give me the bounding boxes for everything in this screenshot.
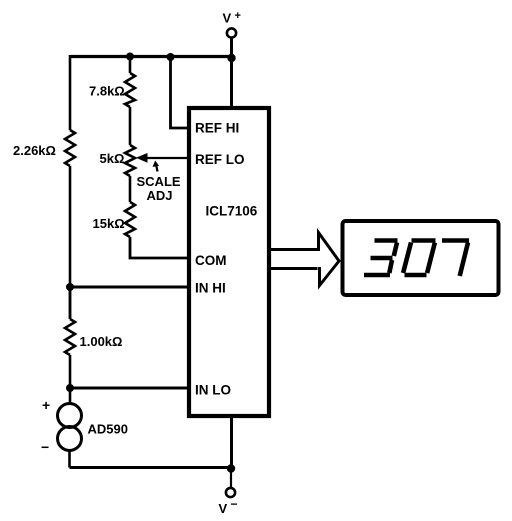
junction dot V- (227, 464, 235, 472)
svg-text:5kΩ: 5kΩ (100, 151, 125, 166)
junction dot IN LO (66, 384, 74, 392)
junction dot REF HI branch (167, 53, 175, 61)
display digit 0 (403, 241, 435, 276)
svg-text:REF LO: REF LO (195, 152, 245, 167)
display digit 7 (442, 241, 469, 277)
wire V+ drop into IC top (230, 58, 233, 110)
svg-text:+: + (42, 397, 50, 413)
wire left rail mid (69, 166, 72, 319)
wire chain top stub (129, 57, 132, 74)
potentiometer 5k element (125, 145, 135, 176)
node V+ terminal label (223, 10, 241, 26)
svg-text:2.26kΩ: 2.26kΩ (13, 143, 56, 158)
svg-text:15kΩ: 15kΩ (93, 216, 125, 231)
op-amp U1 ICL7106 box (189, 108, 269, 416)
wire V- from IC bottom (230, 416, 233, 470)
svg-text:IN LO: IN LO (195, 383, 231, 398)
node V+ terminal circle (227, 28, 236, 37)
wire IN LO node to AD590 (69, 388, 72, 404)
label SCALE ADJ (137, 174, 181, 203)
svg-text:COM: COM (195, 253, 227, 268)
wire IN LO (70, 387, 189, 390)
current source AD590 upper circle (58, 404, 82, 428)
junction dot IN HI (66, 283, 74, 291)
svg-text:ICL7106: ICL7106 (206, 204, 258, 219)
wire wiper to REF LO (147, 157, 189, 159)
svg-text:V: V (223, 11, 232, 26)
svg-text:V: V (219, 501, 228, 516)
svg-text:−: − (41, 439, 49, 455)
block arrow to display (271, 233, 339, 286)
svg-text:−: − (231, 497, 238, 511)
wire chain bottom to COM (130, 237, 189, 258)
resistor 2.26k (65, 130, 75, 166)
wire chain between pot and 15k (129, 176, 132, 202)
current source AD590 lower circle (58, 427, 82, 451)
svg-text:SCALE: SCALE (137, 174, 181, 189)
resistor 1.00k (65, 319, 75, 355)
wire AD590 bottom stub (68, 451, 71, 468)
wire top rail horizontal (70, 55, 232, 58)
junction dot at V+ rail (227, 54, 235, 62)
wire left rail above 1k (69, 287, 72, 319)
node V- terminal circle (226, 488, 235, 497)
display digit 3 (364, 241, 398, 276)
wire junction to V- terminal (230, 469, 232, 489)
label SCALE ADJ pointer arrow (153, 161, 160, 172)
wire left rail upper (69, 55, 72, 130)
svg-text:IN HI: IN HI (195, 281, 226, 296)
wire REF HI branch vertical (171, 57, 190, 129)
resistor 7.8k (125, 73, 135, 107)
node V- terminal label (219, 497, 238, 516)
wire IN HI (70, 286, 189, 289)
svg-text:REF HI: REF HI (195, 121, 239, 136)
wire V+ vertical to top rail (230, 38, 233, 58)
wire chain between 7.8k and pot (129, 107, 132, 145)
wire left rail below 1k (69, 355, 72, 388)
svg-text:7.8kΩ: 7.8kΩ (89, 84, 125, 99)
potentiometer wiper arrow (136, 153, 148, 163)
display module box (343, 221, 499, 295)
svg-text:AD590: AD590 (88, 422, 128, 437)
resistor 15k (125, 202, 135, 237)
svg-text:+: + (235, 10, 241, 22)
svg-text:1.00kΩ: 1.00kΩ (80, 334, 123, 349)
svg-text:ADJ: ADJ (147, 188, 173, 203)
wire bottom rail (70, 466, 232, 469)
junction dot top of resistor chain (126, 53, 134, 61)
